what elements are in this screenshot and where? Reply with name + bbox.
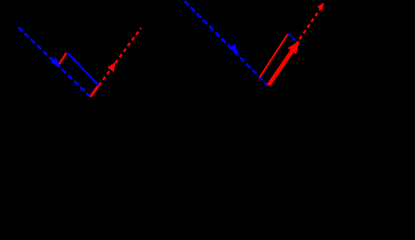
right diagram: reflected ray end arrowhead (red) — [317, 3, 324, 11]
left diagram: incident ray arrowhead (blue) — [50, 57, 60, 67]
left diagram: incident ray (blue dashed) — [19, 27, 91, 97]
right diagram: blue dashed connector tick (parallel to incident ray) — [288, 34, 297, 43]
left diagram: displaced incident segment (solid blue line) — [68, 53, 99, 85]
left diagram: solid red segment at vertex (start of reflected ray) — [91, 85, 99, 97]
right diagram: reflected ray (red dashed) — [268, 7, 322, 85]
left diagram: reflected ray (red dashed) — [91, 28, 142, 97]
right diagram: incident ray arrowhead (blue) — [229, 44, 239, 54]
right diagram: incident ray (blue dashed) — [185, 1, 268, 85]
right diagram: displaced reflected segment (thin red line) — [260, 34, 288, 77]
left diagram: reflected ray arrowhead (red) — [107, 62, 116, 72]
left diagram: red connector tick (parallel to reflected ray) — [59, 53, 66, 64]
right diagram: thick red arrow on reflected ray — [269, 41, 300, 85]
